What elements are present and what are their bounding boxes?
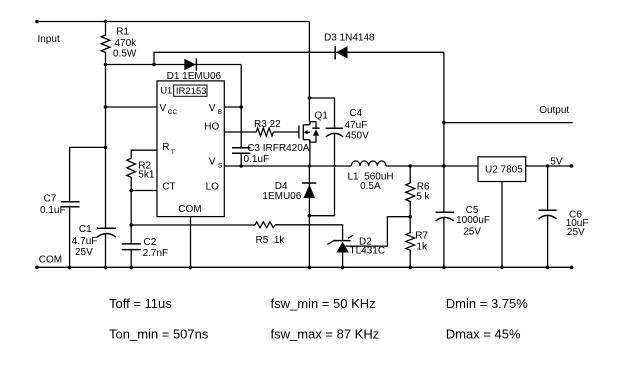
svg-text:V: V [160, 103, 167, 114]
capacitor C4 [309, 98, 369, 142]
label pin VB [209, 103, 222, 116]
op-amp U1 IR2153 box [157, 81, 224, 217]
wire C2 to ground rail [130, 250, 132, 268]
node D3 branch tee [152, 63, 156, 67]
wire C6 to ground rail [547, 215, 549, 267]
diode D3 1N4148 [324, 33, 375, 60]
diode D1 1EMU06 [167, 58, 222, 82]
node gnd C6 [546, 266, 550, 270]
svg-text:R5 1k: R5 1k [256, 235, 286, 246]
node R5 branch tee [129, 223, 133, 227]
node VCC tee [104, 105, 108, 109]
node Output tee [442, 121, 446, 125]
node switch node junction [308, 165, 311, 168]
wire top rail [37, 21, 309, 23]
wire C5 to ground rail [443, 217, 445, 267]
wire stub up to D3 rail [154, 52, 444, 64]
svg-text:C1: C1 [79, 224, 92, 235]
resistor R2 [127, 158, 155, 180]
node gnd D4 [308, 266, 312, 270]
wire C1 to ground rail [105, 234, 107, 268]
regulator U2 7805 [478, 157, 526, 182]
wire R2 bottom to CT node [130, 177, 132, 244]
svg-text:25V: 25V [75, 247, 93, 258]
node gnd C2 [129, 266, 133, 270]
node R6 top junction [408, 164, 412, 168]
svg-text:T: T [171, 149, 175, 156]
wire Q1 source to VS rail [309, 140, 311, 167]
wire C4 down to D4 anode tee [309, 133, 334, 216]
node gnd D2 [341, 266, 345, 270]
wire RT pin [131, 150, 157, 158]
label pin VCC [160, 103, 178, 116]
svg-text:C2: C2 [144, 237, 157, 248]
capacitor C5 [436, 166, 490, 237]
svg-text:U1: U1 [160, 86, 172, 97]
svg-text:25V: 25V [463, 226, 481, 237]
svg-text:0.1uF: 0.1uF [40, 205, 66, 216]
svg-text:R: R [162, 142, 169, 153]
wire R3 to Q1 gate [273, 131, 299, 133]
resistor R3 [254, 119, 281, 136]
svg-text:0.5W: 0.5W [113, 49, 137, 60]
node C4/D4 tee [308, 214, 312, 218]
svg-text:5 k: 5 k [416, 191, 430, 202]
svg-text:2.7nF: 2.7nF [143, 248, 169, 259]
svg-text:C3 IRFR420A: C3 IRFR420A [247, 143, 310, 154]
svg-text:V: V [209, 157, 216, 168]
wire COM pin down [190, 217, 192, 268]
node VB junction [239, 105, 243, 109]
svg-text:D3 1N4148: D3 1N4148 [324, 33, 375, 44]
svg-text:470k: 470k [115, 38, 138, 49]
svg-text:B: B [218, 109, 222, 116]
svg-text:R7: R7 [415, 230, 428, 241]
wire Output rail [444, 122, 573, 124]
resistor R1 [101, 22, 137, 65]
resistor R5 1k [255, 222, 285, 246]
node COM terminal [35, 266, 39, 270]
node C6 tee [546, 164, 550, 168]
wire feedback from divider to D2 [345, 217, 410, 246]
svg-text:25V: 25V [567, 227, 585, 238]
node 5V terminal [570, 164, 574, 168]
svg-text:Ton_min = 507ns: Ton_min = 507ns [109, 327, 209, 342]
capacitor C1 [72, 224, 116, 258]
svg-text:TL431C: TL431C [350, 246, 386, 257]
wire R5 to D2 cathode [275, 225, 343, 241]
wire D3 column down to rail [443, 52, 445, 166]
svg-text:CT: CT [162, 181, 175, 192]
svg-text:Dmin = 3.75%: Dmin = 3.75% [446, 296, 528, 311]
svg-text:R1: R1 [116, 26, 129, 37]
capacitor C3 [232, 107, 310, 165]
node gnd R7 [408, 266, 412, 270]
node CT tee [129, 189, 133, 193]
node gnd C7 [68, 266, 72, 270]
inductor L1 560uH [348, 161, 394, 192]
wire VCC pin [106, 106, 158, 108]
svg-text:CC: CC [168, 109, 178, 116]
node feedback tee [408, 215, 412, 219]
svg-text:5V: 5V [550, 156, 563, 167]
svg-text:Input: Input [38, 34, 60, 45]
node Input terminal [35, 20, 39, 24]
svg-text:C4: C4 [349, 108, 362, 119]
node top rail / R1 junction [104, 20, 108, 24]
wire VB pin [224, 106, 241, 108]
svg-text:U2 7805: U2 7805 [485, 164, 523, 175]
svg-text:5k1: 5k1 [138, 170, 155, 181]
svg-text:fsw_max = 87 KHz: fsw_max = 87 KHz [271, 327, 380, 342]
label pin RT [162, 142, 175, 156]
svg-text:1EMU06: 1EMU06 [262, 191, 301, 202]
label pin VS [209, 157, 223, 170]
svg-text:0.1uF: 0.1uF [244, 154, 270, 165]
svg-text:4.7uF: 4.7uF [72, 236, 98, 247]
node output branch junction [442, 164, 446, 168]
diode D4 1EMU06 [262, 166, 316, 267]
node C7 tee [104, 146, 108, 150]
wire 5V rail [526, 165, 572, 167]
wire ground rail COM [37, 266, 572, 268]
node gnd COM pin [189, 266, 193, 270]
wire HO pin to R3 [224, 131, 256, 133]
node gnd C5 [442, 266, 446, 270]
wire drain from top rail [308, 22, 310, 122]
svg-text:S: S [218, 162, 223, 169]
svg-text:Toff = 11us: Toff = 11us [109, 296, 172, 311]
wire C3 to VS rail [240, 153, 242, 166]
resistor R6 5k [406, 166, 431, 217]
transistor Q1 IRFR420A [299, 110, 328, 142]
wire CT pin [131, 190, 157, 192]
wire VS rail [224, 165, 351, 167]
wire C7 branch [70, 147, 106, 201]
svg-text:1k: 1k [416, 241, 428, 252]
svg-text:Q1: Q1 [315, 110, 329, 121]
svg-text:COM: COM [39, 254, 62, 265]
capacitor C2 [122, 237, 168, 259]
svg-text:47uF: 47uF [345, 120, 368, 131]
wire U2 ground pin [501, 182, 503, 268]
svg-text:LO: LO [206, 181, 220, 192]
node gnd U2 [500, 266, 504, 270]
svg-text:450V: 450V [345, 131, 369, 142]
diode D2 TL431C [327, 235, 385, 267]
node C4 top tee [308, 96, 312, 100]
wire L1 to regulator input [386, 165, 478, 167]
wire R1 to D1 anode [106, 64, 242, 66]
svg-text:Output: Output [539, 105, 569, 116]
wire VCC column down [105, 65, 107, 229]
svg-text:V: V [209, 103, 216, 114]
svg-text:COM: COM [178, 204, 201, 215]
node C3/VS junction [239, 164, 243, 168]
svg-text:0.5A: 0.5A [360, 181, 381, 192]
node gnd C1 [104, 266, 108, 270]
svg-text:fsw_min = 50 KHz: fsw_min = 50 KHz [271, 296, 376, 311]
capacitor C6 [539, 166, 589, 238]
node R1 bottom junction [104, 63, 108, 67]
wire C7 to ground rail [69, 207, 71, 268]
svg-text:R3 22: R3 22 [254, 119, 281, 130]
svg-text:HO: HO [204, 121, 219, 132]
resistor R7 1k [406, 217, 429, 268]
wire R5 from CT node [131, 224, 255, 226]
capacitor C7 [40, 194, 80, 217]
node gnd terminal right [570, 266, 574, 270]
wire D1 cathode down to VB [240, 65, 242, 108]
svg-text:1000uF: 1000uF [456, 215, 490, 226]
svg-text:Dmax = 45%: Dmax = 45% [446, 327, 521, 342]
svg-text:IR2153: IR2153 [176, 86, 207, 97]
svg-text:C7: C7 [44, 194, 57, 205]
